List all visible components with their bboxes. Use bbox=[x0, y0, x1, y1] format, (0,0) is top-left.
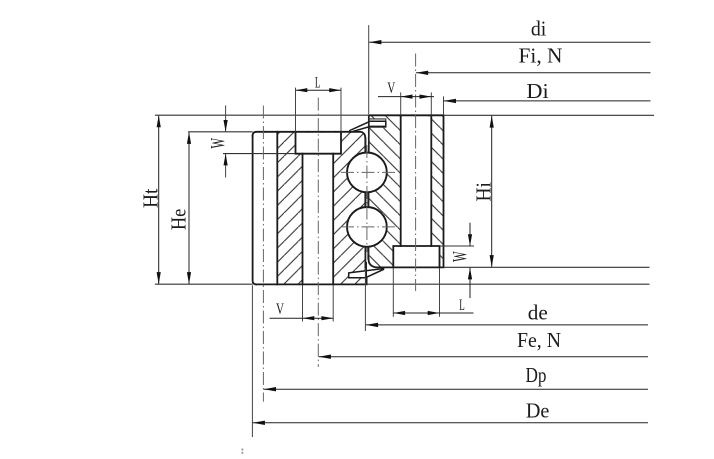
svg-text:De: De bbox=[526, 399, 550, 423]
gap line crossing seal bbox=[365, 262, 367, 284]
dimension L bottom bbox=[393, 297, 473, 315]
outer ring outline bbox=[253, 132, 367, 285]
gap right line crossing seal top bbox=[368, 115, 370, 152]
svg-text:Fi, N: Fi, N bbox=[519, 44, 563, 68]
dimension Fi,N bbox=[416, 44, 651, 76]
svg-text:W: W bbox=[449, 251, 471, 262]
svg-text:di: di bbox=[531, 16, 547, 40]
dimension Di bbox=[444, 79, 651, 103]
raceway gap lines bbox=[365, 138, 368, 260]
dimension L top bbox=[296, 74, 342, 92]
outer ring top edge extension bbox=[188, 131, 253, 133]
inner ring outline bbox=[369, 115, 444, 267]
svg-text:de: de bbox=[528, 301, 548, 325]
counterbore bottom extension left bbox=[223, 153, 296, 155]
dimension Fe,N bbox=[319, 328, 648, 359]
ball row 1 bbox=[347, 153, 387, 193]
counterbore top extension right bbox=[440, 245, 475, 247]
ball row 2 bbox=[347, 207, 387, 247]
dimension Ht bbox=[139, 115, 163, 284]
dimension De bbox=[253, 399, 648, 426]
extension lines bbox=[226, 25, 444, 437]
inner ring hatched body bbox=[369, 115, 444, 267]
svg-text:Dp: Dp bbox=[526, 363, 547, 387]
dimension W right bbox=[449, 223, 472, 298]
bottom surface line inner ring bbox=[444, 266, 650, 268]
gap left line lower segment bbox=[364, 247, 366, 273]
svg-text:V: V bbox=[276, 301, 285, 318]
svg-text:Fe, N: Fe, N bbox=[517, 328, 561, 352]
dimension He bbox=[166, 132, 191, 284]
seal bottom bbox=[349, 269, 384, 278]
dimension Hi bbox=[472, 116, 496, 268]
svg-text:W: W bbox=[207, 138, 229, 149]
top surface line inner ring level bbox=[155, 114, 369, 116]
dimension V top bbox=[378, 80, 434, 99]
outer ring plug hole bbox=[254, 133, 278, 284]
outer ring bolt hole bbox=[303, 154, 334, 284]
svg-text:Ht: Ht bbox=[139, 188, 163, 208]
outer ring hatched body bbox=[253, 132, 367, 285]
stray mark bottom left bbox=[242, 449, 244, 454]
svg-text:Di: Di bbox=[526, 79, 548, 103]
seal groove notch inner ring bbox=[369, 119, 386, 127]
dimension W top-left bbox=[207, 120, 229, 165]
bottom surface line outer ring extensions bbox=[155, 283, 253, 285]
centerlines bbox=[263, 54, 415, 402]
seal top bbox=[350, 121, 386, 132]
outer ring counterbore bbox=[296, 133, 342, 154]
dimension V bottom bbox=[270, 301, 334, 320]
dimension de bbox=[366, 301, 648, 328]
dimension Dp bbox=[264, 363, 648, 391]
inner ring bolt hole bbox=[401, 116, 432, 246]
svg-text:V: V bbox=[387, 80, 396, 97]
dimension di bbox=[369, 16, 650, 44]
svg-text:L: L bbox=[315, 74, 321, 91]
svg-text:L: L bbox=[459, 297, 465, 314]
svg-text:He: He bbox=[166, 209, 190, 231]
svg-text:Hi: Hi bbox=[472, 182, 496, 202]
